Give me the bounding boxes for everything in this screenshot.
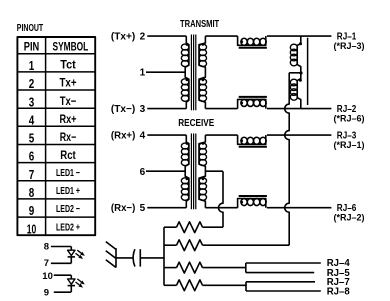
svg-text:6: 6 [140,167,146,178]
CMC lower loops [290,79,297,100]
svg-text:PIN: PIN [24,40,40,54]
pin 9 row [29,203,80,218]
svg-text:1: 1 [140,68,146,79]
svg-text:LED2 +: LED2 + [56,222,80,233]
pin 10 row [27,221,80,236]
T2 phasing dots [186,142,205,180]
svg-text:LED1 −: LED1 − [56,168,80,179]
wire choke L1 to RJ-1 [267,35,332,37]
wire T2 right center tap [205,170,223,172]
svg-text:Rct: Rct [60,148,76,162]
wire CMC center tap down to R2 (hops over RJ-2, RJ-3, RJ-6 wires) [285,73,290,245]
T1 right winding loops [199,44,207,101]
svg-text:10: 10 [42,271,53,282]
wire T1 top to choke L1 [205,35,237,37]
wire T1 bottom to choke L2 [205,108,237,110]
svg-text:9: 9 [29,203,35,218]
wire to RJ-4 [246,262,321,264]
CMC junction and phasing dots [299,42,303,81]
CMC core [307,38,309,105]
svg-text:(*RJ–1): (*RJ–1) [334,140,365,151]
svg-text:8: 8 [29,185,35,200]
wire pin8 to LED1 [51,246,71,248]
T1 core [191,35,195,111]
resistor R3 [164,267,177,269]
resistor R4 [164,284,177,286]
svg-text:5: 5 [140,203,146,214]
table row lines [17,54,95,217]
choke L1 (transmit top) [238,36,267,48]
svg-text:(Rx−): (Rx−) [111,203,135,214]
T1 phasing dots [186,43,205,81]
pin 7 row [29,167,80,182]
CMC spine upper [297,36,301,73]
chassis ground [106,242,116,268]
svg-text:7: 7 [29,167,35,182]
svg-text:(Rx+): (Rx+) [111,130,135,141]
CMC spine lower [297,73,301,109]
wire pin 3 [147,108,186,110]
T2 core [191,134,195,210]
wire choke L4 to RJ-6 [267,207,332,209]
wire to RJ-7 [246,281,315,283]
svg-text:(Tx+): (Tx+) [111,31,135,42]
wire T2 center tap down to R1 (hops over RJ-6 wire) [219,171,224,227]
pin 1 row [29,58,76,74]
svg-text:RECEIVE: RECEIVE [178,118,214,129]
pin 4 row [29,112,77,128]
wire pin 5 [147,207,186,209]
svg-text:4: 4 [29,112,35,127]
T1 left winding loops [181,44,189,101]
svg-text:LED1 +: LED1 + [56,186,80,197]
wire choke L2 to RJ-2 [267,108,332,110]
svg-text:3: 3 [29,94,35,109]
wire ground to capacitor [116,257,133,259]
svg-text:PINOUT: PINOUT [17,23,43,34]
capacitor C1 straight plate [139,249,141,266]
svg-text:2: 2 [29,76,35,91]
bracket RJ-4/RJ-5 [245,263,247,273]
svg-text:3: 3 [140,104,146,115]
svg-text:(*RJ–6): (*RJ–6) [334,113,365,124]
wire pin 6 (receive center tap) [146,170,185,172]
pin 8 row [29,185,80,200]
pin 6 row [29,148,76,164]
resistor R1 [164,226,177,228]
LED D1 [68,247,85,264]
resistor R2 [164,244,177,246]
T1 left spine [185,36,189,109]
wire T2 top to choke L3 [205,134,237,136]
pin 2 row [29,76,77,92]
svg-text:6: 6 [29,149,35,164]
bracket RJ-7/RJ-8 [245,282,247,291]
table frame [17,37,95,235]
capacitor C1 curved plate [133,249,135,266]
wire choke L3 to RJ-3 [267,134,332,136]
svg-text:Tx+: Tx+ [60,76,77,90]
table column divider [45,37,47,235]
LED D2 [68,275,85,292]
svg-text:RJ–8: RJ–8 [327,286,350,297]
pin 3 row [29,94,77,110]
wire pin9 to LED2 [54,291,72,293]
wire T2 bottom to choke L4 [205,207,237,209]
svg-text:(*RJ–2): (*RJ–2) [334,213,365,224]
T2 right spine [199,135,205,208]
T2 right winding loops [199,143,207,200]
svg-text:(Tx−): (Tx−) [111,104,135,115]
wire pin10 to LED2 [54,274,72,276]
svg-text:Rx+: Rx+ [60,112,77,126]
svg-text:Tct: Tct [60,58,76,72]
svg-text:SYMBOL: SYMBOL [53,40,89,54]
wire pin 4 [147,134,186,136]
T1 right spine [199,36,205,109]
svg-text:1: 1 [29,58,35,73]
T2 left spine [185,135,189,208]
svg-text:10: 10 [27,221,37,236]
wire to RJ-8 [246,290,321,292]
svg-text:5: 5 [29,131,35,146]
wire pin7 to LED1 [51,262,71,264]
choke L2 (transmit bottom, mirrored) [238,97,267,109]
wire to RJ-5 [246,272,314,274]
choke L4 (receive bottom, mirrored) [238,196,267,208]
svg-text:2: 2 [140,32,146,43]
pin 5 row [29,130,77,146]
svg-text:(*RJ–3): (*RJ–3) [334,41,365,52]
choke L3 (receive top) [238,135,267,147]
svg-text:TRANSMIT: TRANSMIT [180,19,219,30]
wire CMC center tap stub [289,72,301,74]
svg-text:LED2 −: LED2 − [56,204,80,215]
svg-text:7: 7 [44,258,49,269]
T2 left winding loops [181,143,189,200]
svg-text:Rx−: Rx− [60,130,77,144]
wire pin 2 [147,35,186,37]
svg-text:9: 9 [44,288,49,299]
bus node vertical [163,227,165,285]
svg-text:Tx−: Tx− [60,94,77,108]
CMC upper loops [290,44,297,66]
svg-text:8: 8 [44,242,49,253]
svg-text:4: 4 [140,131,146,142]
wire pin 1 (transmit center tap) [146,71,185,73]
wire capacitor to bus [140,257,164,259]
